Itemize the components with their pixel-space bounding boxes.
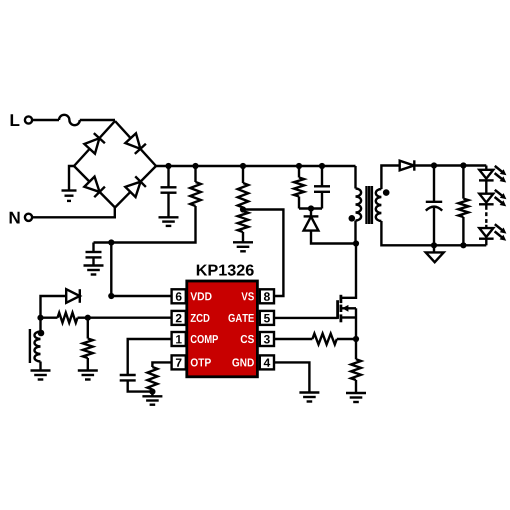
transistor Q1 source stub <box>341 316 356 318</box>
wire C3 to OTP node <box>128 380 153 391</box>
fuse F1 <box>59 115 80 125</box>
pin box 4 <box>260 355 274 369</box>
node snubber junction <box>308 205 314 211</box>
LED2 <box>479 194 494 205</box>
wire bottom rail to earth <box>433 245 435 252</box>
wire dashes to LED3 <box>485 225 487 228</box>
wire C5 to bottom rail <box>433 207 435 246</box>
wire snubber bottom <box>299 207 322 209</box>
diode D6 (clamp) <box>304 216 319 230</box>
wire pin1 to C3 <box>128 339 172 375</box>
net label L <box>11 114 20 126</box>
wire junction down to VDD row <box>110 243 112 297</box>
LED1 <box>479 170 494 181</box>
primary winding NP <box>356 189 362 221</box>
capacitor C3 (COMP) <box>120 374 136 376</box>
ground (R5) <box>233 241 253 243</box>
node bus-R6 <box>296 163 302 169</box>
wire tap to pin 8 <box>243 210 283 297</box>
transistor Q1 gate bar <box>336 300 339 319</box>
terminal L <box>25 116 32 123</box>
transistor Q1 channel bottom <box>339 314 342 322</box>
wire N to bridge bottom <box>32 208 115 218</box>
dashed wire (more LEDs) <box>485 212 487 224</box>
bridge edge top-left wire <box>74 121 115 166</box>
node aux/ZCD junction <box>37 315 43 321</box>
ground (COMP/OTP) <box>142 395 162 397</box>
wire secondary top to D7 <box>381 166 399 190</box>
resistor R8 (CS filter) <box>312 334 336 345</box>
wire C2 to ground <box>92 257 94 265</box>
wire LED2 to dashes <box>485 204 487 210</box>
wire switch node to drain <box>341 244 356 298</box>
node ZCD junction <box>85 315 91 321</box>
capacitor C5 plus plate <box>426 201 442 203</box>
capacitor C4 (snubber) <box>314 185 330 187</box>
wire R6 to snubber node <box>298 197 300 209</box>
resistor R7 <box>458 199 468 217</box>
resistor R6 (snubber) <box>294 178 304 197</box>
wire D5 anode to aux node <box>41 296 67 318</box>
wire pin3 to R8 <box>274 338 313 340</box>
bridge edge top-right wire <box>115 121 156 166</box>
resistor R5 (VS lower) <box>238 211 249 232</box>
node bus-C1 <box>165 163 171 169</box>
wire C1 to ground <box>167 193 169 218</box>
pin name CS <box>241 335 254 343</box>
capacitor C1 <box>161 186 177 188</box>
wire LED1 to LED2 <box>485 180 487 193</box>
wire CS node to R9 <box>355 339 357 359</box>
node bus-R4 <box>240 163 246 169</box>
capacitor C2 <box>86 251 102 253</box>
pin box 2 <box>172 311 186 325</box>
IC U1 KP1326 body <box>187 281 258 377</box>
transistor Q1 channel top <box>339 295 342 303</box>
primary phase dot <box>349 215 356 222</box>
LED3 arrows <box>495 224 507 241</box>
ground (R9) <box>346 392 366 394</box>
wire R5 to ground <box>242 232 244 242</box>
wire R7 to bottom rail <box>462 217 464 245</box>
node VDD-cap row junction <box>108 239 114 245</box>
pin name ZCD <box>191 314 210 322</box>
net label N <box>10 212 20 224</box>
node bus-R1 <box>192 163 198 169</box>
bridge edge bottom-right wire <box>115 166 156 208</box>
bridge diode D4 (bottom-right) <box>125 176 146 197</box>
wire bus to R1 <box>194 166 196 182</box>
pin name GND <box>232 358 254 366</box>
transistor Q1 body arrow <box>342 305 348 312</box>
LED1 arrows <box>495 166 507 183</box>
resistor R2 (ZCD series) <box>58 313 78 323</box>
ground (pin 4) <box>299 391 319 393</box>
core line 3 <box>371 186 373 224</box>
wire DC bus rail <box>156 165 356 167</box>
wire C4 to snubber node <box>321 192 323 209</box>
node rail-R7 <box>460 162 466 168</box>
pin box 7 <box>172 355 186 369</box>
wire pin4 to ground <box>274 362 310 392</box>
bridge edge bottom-left wire <box>74 166 115 208</box>
pin box 8 <box>260 289 274 303</box>
wire R4 to tap <box>242 208 244 210</box>
wire rail to LED1 <box>485 166 487 170</box>
wire D6 anode to switch node <box>311 231 356 244</box>
wire R2 to ZCD node <box>78 317 88 319</box>
wire pin7 to R10 <box>152 362 171 367</box>
node VDD junction <box>108 293 114 299</box>
node switch junction <box>353 240 359 246</box>
wire secondary bottom rail <box>381 221 486 245</box>
aux core line <box>29 329 31 363</box>
pin name VDD <box>190 292 211 300</box>
ground (C1) <box>159 216 179 218</box>
wire row to C2 <box>92 243 94 253</box>
resistor R9 (sense) <box>351 359 361 380</box>
wire R10 to junction <box>151 390 153 397</box>
wire R9 to ground <box>355 380 357 393</box>
pin name COMP <box>191 335 218 343</box>
wire source down to CS node <box>355 318 357 340</box>
wire ZCD node to R3 <box>87 318 89 339</box>
bridge diode D3 (bottom-left) <box>84 176 105 197</box>
wire LED3 to bottom rail <box>485 239 487 246</box>
resistor R1 <box>190 182 201 206</box>
wire bus to C1 <box>167 166 169 187</box>
node COMP/OTP ground junction <box>149 389 155 395</box>
ground (bridge) <box>62 189 77 191</box>
aux winding NA <box>35 332 41 362</box>
core line 2 <box>368 186 370 224</box>
wire rail to R7 <box>462 166 464 199</box>
pin box 5 <box>260 311 274 325</box>
diode D7 (output) <box>400 160 415 170</box>
bridge diode D2 (top-right) <box>125 133 146 154</box>
wire output rail <box>414 164 486 166</box>
aux winding phase dot <box>38 330 45 337</box>
pin name GATE <box>228 314 254 322</box>
LED2 arrows <box>495 190 507 207</box>
node bottom-R7 <box>460 242 466 248</box>
secondary phase dot <box>383 189 390 196</box>
LED3 <box>479 228 494 239</box>
ground (C2) <box>84 264 104 266</box>
secondary winding NS <box>376 189 382 221</box>
resistor R3 (ZCD pulldown) <box>83 339 93 359</box>
transistor Q1 body stub <box>341 307 356 309</box>
terminal N <box>25 214 32 221</box>
wire aux node to R2 <box>41 317 58 319</box>
wire winding to ground <box>39 362 41 371</box>
ground (aux winding) <box>31 369 51 371</box>
node CS junction <box>353 336 359 342</box>
core line 1 <box>365 186 367 224</box>
wire aux node to winding <box>39 318 41 332</box>
wire ZCD node to pin 2 <box>88 317 172 319</box>
node rail-C5 <box>431 162 437 168</box>
node VS tap <box>240 206 246 212</box>
pin box 1 <box>172 332 186 346</box>
earth symbol (secondary) <box>426 252 444 262</box>
capacitor C5 curved plate <box>426 207 442 211</box>
wire rail to C5 <box>433 166 435 202</box>
wire node to D2 cathode <box>310 209 312 217</box>
wire pin5 to gate <box>274 317 338 319</box>
pin name OTP <box>191 358 211 366</box>
wire R3 to ground <box>87 358 89 371</box>
wire R1 to VDD cap row <box>94 206 196 243</box>
wire body to source <box>355 308 357 317</box>
node bottom-C5 <box>431 242 437 248</box>
ground (R3) <box>78 369 98 371</box>
pin box 6 <box>172 289 186 303</box>
wire bridge left vertex to ground <box>69 166 74 191</box>
bridge diode D1 (top-left) <box>84 133 105 154</box>
wire fuse to bridge top <box>80 119 115 121</box>
wire L to fuse <box>32 119 59 121</box>
diode D5 (VDD) <box>66 289 80 303</box>
wire bus to primary <box>354 166 356 189</box>
pin box 3 <box>260 332 274 346</box>
wire bus to C4 <box>321 166 323 186</box>
wire VDD row to pin 6 <box>111 295 171 297</box>
wire bus to R4 <box>242 166 244 183</box>
wire bus to R6 <box>298 166 300 178</box>
resistor R10 (OTP) <box>147 367 157 390</box>
IC label KP1326 <box>197 265 254 276</box>
transistor Q1 channel mid <box>339 305 342 312</box>
node bus-C4 <box>319 163 325 169</box>
wire primary to switch node <box>354 221 356 244</box>
resistor R4 (VS upper) <box>238 183 249 208</box>
wire R8 to CS node <box>337 338 356 340</box>
pin name VS <box>241 292 254 300</box>
